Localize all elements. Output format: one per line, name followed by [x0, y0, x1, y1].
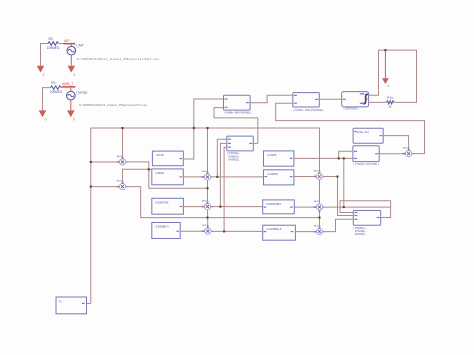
svg-text:AMB_T: AMB_T [62, 82, 73, 86]
wire M3-M6 column [207, 180, 209, 203]
svg-text:100MEG: 100MEG [47, 46, 60, 50]
resistor R1a [387, 96, 394, 109]
svg-text:( V(%IN+, %IN-)*V(%IN2) ): ( V(%IN+, %IN-)*V(%IN2) ) [224, 112, 251, 115]
svg-text:0.00002084: 0.00002084 [266, 202, 281, 206]
wire C3 to M8 [294, 206, 316, 208]
wire M9 output to A3 pin3 [323, 219, 353, 231]
svg-text:I_temp1: I_temp1 [76, 91, 88, 95]
abm block K2 [293, 93, 324, 112]
multiplier M6 [202, 201, 213, 210]
ground [382, 78, 389, 88]
multiplier S1 [403, 148, 414, 157]
svg-text:AIP: AIP [64, 39, 70, 43]
svg-text:( SDT(%IN) ): ( SDT(%IN) ) [344, 108, 359, 111]
svg-text:C:\IBHW1200L01_Case1_PSpice\cs: C:\IBHW1200L01_Case1_PSpice\csv\101.csv [77, 57, 159, 61]
wire A2 pin2 down V2 [343, 158, 345, 207]
ground [39, 110, 47, 121]
wire A2 output to S1 [379, 153, 405, 155]
const block B2 [152, 169, 184, 185]
gain block C4 [263, 225, 296, 240]
svg-text:-5.6598E-5: -5.6598E-5 [155, 225, 169, 229]
wire B0 input3 from M7 row [224, 147, 227, 231]
multiplier M7 [202, 225, 213, 234]
wire [43, 88, 51, 111]
svg-text:-4.22486E-6: -4.22486E-6 [266, 227, 282, 231]
const block B1 [152, 151, 183, 166]
wire [70, 55, 72, 66]
wire M2 output long [126, 187, 320, 218]
svg-text:0.0000784: 0.0000784 [155, 200, 169, 204]
multiplier M8 [314, 201, 325, 213]
wire bus vertical [90, 128, 92, 304]
wire B0 input1 from M3 row [217, 139, 227, 177]
wire B4 to M7 [180, 230, 204, 232]
wire M1 input [91, 161, 119, 163]
ground [68, 66, 76, 77]
svg-text:R2: R2 [49, 37, 53, 41]
wire C4 to M9 [295, 231, 316, 233]
wire A4 to R1a [369, 101, 387, 103]
svg-text:-45.29: -45.29 [156, 153, 164, 157]
gain block C2 [264, 170, 294, 185]
wire [70, 100, 72, 111]
voltage source I_AIP [67, 44, 84, 55]
abm block A2 [353, 146, 379, 166]
gain block C3 [263, 200, 295, 214]
svg-text:I_AIP: I_AIP [76, 44, 84, 48]
resistor R2 [47, 37, 64, 50]
svg-text:100MEG: 100MEG [50, 90, 63, 94]
wire M3 column feed [207, 128, 209, 173]
wire branch to A2 pin1 [339, 151, 353, 158]
multiplier M9 [314, 226, 325, 235]
abm block B0 [227, 136, 254, 162]
svg-text:R1: R1 [51, 81, 55, 85]
const block B4 [152, 223, 180, 239]
svg-text:C:\IBHW1200L01_Case1_PSpice\cs: C:\IBHW1200L01_Case1_PSpice\csv\T1.csv [79, 103, 147, 107]
wire K1 input2 route [214, 108, 258, 144]
resistor R1 [50, 81, 63, 94]
wire M6 to C3 [211, 206, 263, 208]
multiplier M4 [314, 170, 325, 179]
wire K2 output [319, 98, 341, 100]
wire A3 output loop [344, 207, 391, 217]
wire K2 input2 feedback [276, 103, 425, 153]
wire A3 pin1 loop [340, 201, 391, 213]
wire B1 output to K1 [183, 99, 223, 159]
node AIP [63, 39, 75, 47]
wire B3 to M6 [183, 206, 204, 208]
svg-text:T1: T1 [59, 299, 63, 303]
wire ground stub [384, 50, 386, 78]
svg-text:V(IN+, IN-): V(IN+, IN-) [357, 130, 370, 134]
multiplier M2 [117, 181, 128, 190]
wire M7 to C4 [211, 230, 262, 232]
svg-text:0: 0 [43, 73, 45, 77]
svg-text:-0.01186: -0.01186 [267, 172, 278, 176]
wire C2 to M4 [294, 176, 316, 178]
wire M1 output jog [126, 162, 208, 188]
wire M1 top feed [122, 128, 124, 158]
multiplier M3 [202, 171, 213, 180]
gain block C1 [264, 151, 294, 166]
svg-text:0: 0 [73, 73, 75, 77]
wire [41, 44, 49, 66]
svg-text:4.5E04: 4.5E04 [155, 171, 164, 175]
wire A1 output to S1 top [383, 136, 408, 151]
wire M9 top feed [319, 218, 321, 229]
multiplier M1 [117, 156, 128, 165]
block T1 [56, 297, 87, 314]
svg-text:0: 0 [73, 118, 75, 122]
svg-text:1k: 1k [388, 105, 392, 109]
integrator A4 [342, 92, 369, 111]
svg-text:R1a: R1a [387, 96, 393, 100]
ground [37, 66, 45, 77]
wire M8 bottom feed [319, 211, 321, 218]
wire B0 input2 from M6 row [220, 143, 226, 206]
wire M3 to C2 [211, 176, 264, 178]
const block B3 [152, 198, 184, 214]
svg-text:-0.0105: -0.0105 [267, 153, 277, 157]
voltage source I_temp1 [67, 91, 88, 100]
svg-text:( V(%IN+)*V(%IN2) ): ( V(%IN+)*V(%IN2) ) [353, 163, 379, 166]
wire M4 output to A3 pin2 [323, 177, 353, 216]
abm block A3 [353, 211, 380, 237]
wire T1 stub [87, 303, 91, 305]
wire B0 output [253, 142, 257, 144]
svg-text:0: 0 [45, 118, 47, 122]
node AMB_T [62, 82, 76, 91]
wire B2 to M3 [183, 176, 204, 178]
abm block A1 [353, 128, 383, 143]
wire M6-M7 column [207, 210, 209, 228]
wire M2 input [91, 186, 119, 188]
svg-text:( V(%IN+, %IN-)*V(%IN2) ): ( V(%IN+, %IN-)*V(%IN2) ) [294, 109, 324, 112]
wire M8 output [323, 206, 344, 208]
wire A4 top loop [369, 50, 417, 102]
abm block K1 [224, 95, 251, 114]
svg-text:V(%IN3) ): V(%IN3) ) [355, 233, 366, 236]
wire M2 top feed [123, 169, 149, 183]
wire C1 output row to A2 pin2 [294, 157, 353, 159]
ground [67, 110, 75, 121]
wire bus horizontal [91, 128, 320, 173]
svg-text:V(%IN3) ): V(%IN3) ) [228, 159, 239, 162]
wire stub to B2 corner [149, 168, 152, 170]
wire K1 output to K2 [250, 95, 293, 103]
wire M4-M8 column [319, 180, 321, 204]
